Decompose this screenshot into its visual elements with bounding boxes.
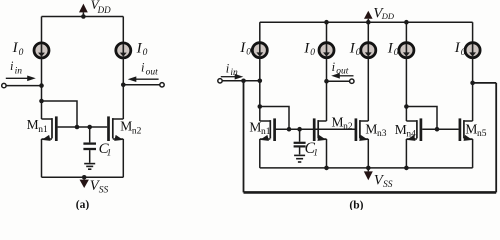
node drain-gate junction Mn1 (a) bbox=[39, 99, 44, 104]
power VSS symbol (b) bbox=[364, 166, 373, 181]
svg-text:n3: n3 bbox=[377, 129, 387, 139]
transistor Mn2 (b) bbox=[314, 118, 326, 167]
node VDD rail junction c4 (b) bbox=[404, 20, 409, 25]
svg-text:n5: n5 bbox=[477, 129, 487, 139]
svg-text:0: 0 bbox=[246, 47, 251, 57]
current source I0 (b) #4 bbox=[399, 43, 414, 58]
transistor Mn1 (a) bbox=[42, 116, 57, 177]
svg-text:i: i bbox=[226, 61, 230, 75]
power VDD symbol (a) bbox=[79, 4, 88, 19]
transistor Mn2 (a) bbox=[109, 116, 124, 177]
svg-text:n4: n4 bbox=[406, 130, 416, 140]
wire column 1 mid (b) bbox=[259, 57, 261, 121]
current source I0 (b) #5 bbox=[465, 43, 480, 58]
label i_in (b) bbox=[226, 61, 238, 78]
power VDD symbol (b) bbox=[364, 11, 373, 25]
label Mn1 (b) bbox=[249, 119, 270, 137]
label C1 (b) bbox=[305, 140, 318, 158]
capacitor C1 (a) bbox=[83, 127, 96, 163]
label Mn2 (b) bbox=[332, 114, 353, 132]
node drain-gate junction Mn4 (b) bbox=[404, 104, 409, 109]
current arrow i_out (b) bbox=[331, 73, 353, 79]
label i_out (b) bbox=[332, 60, 349, 77]
wire column 1 upper (b) bbox=[259, 22, 261, 43]
wire diode connection Mn1 (b) bbox=[260, 107, 289, 130]
svg-text:I: I bbox=[454, 40, 461, 56]
current source I0 (b) #1 bbox=[252, 43, 267, 58]
svg-text:i: i bbox=[141, 60, 145, 74]
label C1 (a) bbox=[99, 141, 112, 158]
wire feedback top (b) bbox=[473, 82, 497, 84]
svg-text:n1: n1 bbox=[261, 127, 271, 137]
svg-text:n1: n1 bbox=[38, 125, 48, 135]
wire input (b) bbox=[222, 80, 260, 82]
label i_in (a) bbox=[10, 59, 22, 76]
label VDD (b) bbox=[373, 5, 395, 21]
svg-text:0: 0 bbox=[19, 48, 24, 58]
ground (a) bbox=[84, 164, 95, 170]
label I0 (b) #2 bbox=[303, 41, 315, 59]
label VSS (b) bbox=[374, 172, 393, 190]
wire feedback right (b) bbox=[495, 83, 497, 192]
wire diode connection Mn4 (b) bbox=[406, 107, 437, 130]
svg-text:M: M bbox=[27, 117, 39, 132]
wire column 2 upper (b) bbox=[326, 22, 328, 43]
wire column 3 upper (b) bbox=[367, 22, 369, 43]
wire right column upper (a) bbox=[122, 17, 124, 44]
terminal input (b) bbox=[218, 79, 222, 83]
svg-text:M: M bbox=[120, 119, 132, 134]
wire column 5 mid (b) bbox=[472, 57, 474, 121]
svg-text:i: i bbox=[10, 59, 14, 73]
current arrow i_out (a) bbox=[128, 76, 159, 82]
svg-text:I: I bbox=[239, 40, 246, 56]
svg-text:1: 1 bbox=[107, 149, 112, 159]
node VSS rail junction Mn4 (b) bbox=[404, 166, 409, 171]
svg-text:SS: SS bbox=[99, 186, 109, 196]
wire column 3 mid (b) bbox=[367, 57, 369, 121]
svg-text:SS: SS bbox=[383, 180, 393, 190]
wire column 2 mid (b) bbox=[326, 57, 328, 121]
node gate rail 1 left (b) bbox=[287, 127, 292, 132]
node VSS rail junction Mn2 (b) bbox=[324, 166, 329, 171]
power VSS symbol (a) bbox=[80, 175, 89, 188]
label VSS (a) bbox=[90, 178, 109, 196]
current source I0 (b) #3 bbox=[361, 43, 376, 58]
wire input (a) bbox=[6, 85, 41, 87]
label I0 (b) #4 bbox=[387, 41, 399, 59]
wire left column upper (a) bbox=[41, 17, 43, 44]
svg-text:0: 0 bbox=[461, 48, 466, 58]
wire feedback left (b) bbox=[243, 81, 245, 193]
svg-text:I: I bbox=[387, 41, 394, 57]
transistor Mn5 (b) bbox=[460, 118, 473, 167]
node output (a) bbox=[121, 83, 126, 88]
current source I0 (a) right bbox=[116, 43, 131, 58]
svg-text:0: 0 bbox=[394, 48, 399, 58]
label I0 (a) right bbox=[136, 41, 148, 59]
wire gate rail stage1 (b) bbox=[275, 128, 355, 130]
svg-text:n2: n2 bbox=[132, 126, 142, 136]
node drain-gate junction Mn1 (b) bbox=[258, 104, 263, 109]
label VDD (a) bbox=[91, 0, 111, 15]
svg-text:(a): (a) bbox=[76, 199, 90, 210]
svg-text:DD: DD bbox=[381, 11, 395, 21]
terminal output (b) bbox=[350, 79, 354, 83]
wire output (b) bbox=[327, 80, 350, 82]
wire VDD rail (a) bbox=[42, 16, 124, 18]
wire gate rail stage2 (b) bbox=[422, 128, 458, 130]
svg-text:M: M bbox=[465, 122, 477, 137]
current arrow i_in (b) bbox=[221, 74, 244, 80]
svg-text:0: 0 bbox=[356, 48, 361, 58]
svg-text:out: out bbox=[146, 67, 159, 77]
wire left column mid (a) bbox=[41, 57, 43, 119]
svg-text:M: M bbox=[395, 122, 407, 137]
svg-text:M: M bbox=[249, 119, 261, 134]
svg-text:I: I bbox=[136, 41, 143, 57]
transistor Mn1 (b) bbox=[260, 118, 275, 167]
svg-text:n2: n2 bbox=[343, 122, 353, 132]
wire feedback bottom (b) bbox=[244, 191, 497, 194]
node gate rail capacitor tap (b) bbox=[297, 127, 302, 132]
node input column junction (b) bbox=[258, 79, 263, 84]
svg-text:I: I bbox=[12, 40, 19, 56]
label i_out (a) bbox=[141, 60, 158, 77]
node gate rail 2 (b) bbox=[435, 127, 440, 132]
svg-text:1: 1 bbox=[313, 149, 318, 159]
wire output (a) bbox=[123, 84, 160, 86]
label I0 (b) #3 bbox=[349, 41, 361, 59]
wire column 5 upper (b) bbox=[472, 22, 474, 43]
svg-text:i: i bbox=[332, 60, 336, 74]
capacitor C1 (b) bbox=[294, 129, 306, 154]
svg-text:I: I bbox=[303, 41, 310, 57]
svg-text:M: M bbox=[332, 114, 344, 129]
transistor Mn3 (b) bbox=[356, 118, 368, 167]
wire VSS rail (b) bbox=[260, 167, 473, 169]
node gate rail capacitor tap (a) bbox=[87, 125, 92, 130]
svg-text:(b): (b) bbox=[349, 199, 363, 210]
node input (a) bbox=[39, 83, 44, 88]
current source I0 (b) #2 bbox=[319, 43, 334, 58]
node input feedback junction (b) bbox=[241, 79, 246, 84]
label I0 (b) #1 bbox=[239, 40, 251, 58]
label Mn3 (b) bbox=[365, 122, 386, 140]
svg-text:0: 0 bbox=[143, 48, 148, 58]
svg-text:M: M bbox=[365, 122, 377, 137]
label Mn1 (a) bbox=[27, 117, 48, 135]
label Mn5 (b) bbox=[465, 122, 486, 140]
svg-text:I: I bbox=[349, 41, 356, 57]
wire column 4 mid (b) bbox=[405, 57, 407, 121]
terminal input (a) bbox=[2, 83, 6, 87]
svg-text:in: in bbox=[15, 66, 23, 76]
label I0 (b) #5 bbox=[454, 40, 466, 58]
terminal output (a) bbox=[160, 83, 164, 87]
transistor Mn4 (b) bbox=[406, 118, 421, 167]
svg-text:DD: DD bbox=[97, 5, 111, 15]
label I0 (a) left bbox=[12, 40, 24, 58]
label Mn4 (b) bbox=[395, 122, 416, 140]
node output column junction (b) bbox=[324, 79, 329, 84]
current arrow i_in (a) bbox=[6, 76, 36, 82]
node feedback drain junction Mn5 (b) bbox=[470, 81, 475, 86]
wire right column mid (a) bbox=[122, 57, 124, 119]
svg-text:0: 0 bbox=[310, 48, 315, 58]
ground (b) bbox=[294, 155, 305, 162]
node gate rail left (a) bbox=[75, 125, 80, 130]
wire column 4 upper (b) bbox=[405, 22, 407, 43]
wire VSS rail (a) bbox=[42, 176, 124, 178]
wire gate rail (a) bbox=[58, 126, 108, 128]
wire diode connection Mn1 (a) bbox=[42, 101, 78, 127]
wire VDD rail (b) bbox=[260, 21, 473, 23]
label Mn2 (a) bbox=[120, 119, 141, 137]
node VDD rail junction c2 (b) bbox=[324, 20, 329, 25]
current source I0 (a) left bbox=[34, 43, 49, 58]
